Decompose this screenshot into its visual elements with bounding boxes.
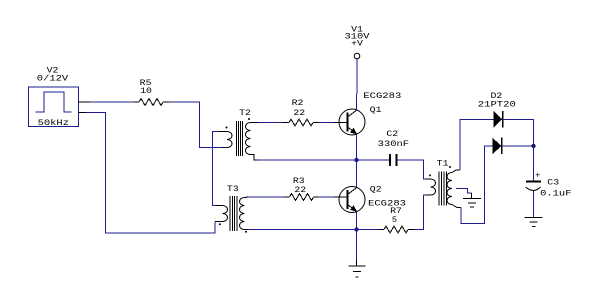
transformer T2 xyxy=(219,118,258,160)
junction node at diode outputs xyxy=(531,144,535,148)
svg-text:330nF: 330nF xyxy=(378,139,409,149)
wire C2 to T1 primary top xyxy=(397,160,426,179)
diode D2a xyxy=(494,111,503,128)
wire R3 to Q2 base xyxy=(319,196,335,198)
svg-text:ECG283: ECG283 xyxy=(363,91,401,101)
wire V2 pin2 down and along bottom to T3 primary bottom xyxy=(86,113,215,234)
transistor Q1 xyxy=(334,109,365,135)
wire R2 to Q1 base xyxy=(319,122,335,124)
junction node at Q2 emitter xyxy=(354,227,358,231)
svg-text:Q1: Q1 xyxy=(370,105,382,115)
wire T2 secondary top to R2 xyxy=(258,122,283,124)
power symbol V1 +V xyxy=(354,53,360,59)
svg-text:22: 22 xyxy=(293,108,305,118)
svg-text:Q2: Q2 xyxy=(370,185,382,195)
svg-text:0/12V: 0/12V xyxy=(37,74,69,84)
ground at T1 center tap xyxy=(463,193,481,207)
transformer T1 xyxy=(425,166,461,208)
svg-text:10: 10 xyxy=(140,86,152,96)
wire node to ground xyxy=(356,232,358,260)
svg-text:+: + xyxy=(535,171,540,181)
ground under Q2 xyxy=(349,260,366,278)
wire V1 to Q1 collector xyxy=(356,59,358,94)
svg-text:5: 5 xyxy=(392,215,397,225)
svg-text:0.1uF: 0.1uF xyxy=(540,189,571,199)
svg-text:T3: T3 xyxy=(227,184,239,194)
wire T3 secondary bottom to node xyxy=(248,229,357,231)
svg-text:22: 22 xyxy=(294,185,306,195)
wire R7 to T1 primary bottom xyxy=(414,195,425,230)
junction node at Q1 emitter / Q2 collector xyxy=(354,158,358,162)
resistor R3 xyxy=(285,194,319,201)
diode D2b xyxy=(493,138,502,155)
wire T1 center tap to ground xyxy=(456,189,472,194)
svg-text:T2: T2 xyxy=(239,108,251,118)
wire C3 to ground xyxy=(533,191,535,218)
wire Q2 collector to node xyxy=(356,160,358,188)
wire D2a to output node xyxy=(503,120,534,147)
resistor R5 xyxy=(134,99,169,106)
transistor Q2 xyxy=(334,187,365,213)
svg-text:21PT20: 21PT20 xyxy=(478,100,516,110)
wire Q2 emitter to ground node xyxy=(356,212,358,230)
wire node to R7 xyxy=(357,229,380,231)
wire T1 secondary bottom to diode D2b xyxy=(461,146,493,224)
capacitor C3 xyxy=(526,182,541,191)
wire T2 primary top to T3 primary top xyxy=(213,132,219,206)
wire node to C3 xyxy=(533,146,535,181)
svg-text:T1: T1 xyxy=(437,159,449,169)
wire T2 secondary bottom to C2 xyxy=(258,159,390,161)
wire Q1 emitter down to node xyxy=(356,134,358,160)
transformer T3 xyxy=(215,196,248,233)
svg-text:R2: R2 xyxy=(292,98,304,108)
resistor R2 xyxy=(283,119,319,126)
wire V2 pin1 to R5 xyxy=(90,101,134,103)
svg-text:+V: +V xyxy=(351,39,364,49)
wire T3 secondary top to R3 xyxy=(248,196,285,198)
wire D2b to output node xyxy=(502,145,534,147)
wire T1 secondary top to diode D2a xyxy=(460,120,494,171)
capacitor C2 xyxy=(390,154,397,166)
svg-text:C2: C2 xyxy=(386,129,398,139)
ground under C3 xyxy=(525,218,543,227)
wire R5 to T2 primary bottom xyxy=(169,102,222,148)
svg-text:50kHz: 50kHz xyxy=(38,118,69,128)
svg-text:C3: C3 xyxy=(547,178,559,188)
resistor R7 xyxy=(379,226,414,233)
voltage source V2 xyxy=(29,87,91,127)
